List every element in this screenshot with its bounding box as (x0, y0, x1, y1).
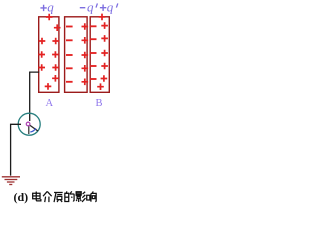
label B (96, 98, 103, 109)
plate A positive charges (38, 14, 60, 90)
caption character zhi (54, 192, 63, 202)
svg-text:q: q (107, 0, 114, 14)
caption (d) (14, 190, 29, 204)
svg-text:B: B (96, 98, 103, 109)
electroscope lower rod (28, 126, 30, 134)
ground (2, 177, 20, 185)
svg-text:q: q (47, 0, 54, 14)
plate B outline (90, 17, 109, 93)
pivot (26, 122, 30, 126)
dielectric slab outline (65, 17, 88, 93)
deflection arc (30, 128, 36, 132)
electroscope needle (30, 125, 38, 131)
plate B charges (90, 14, 108, 90)
caption character dian (33, 192, 41, 201)
svg-text:q: q (87, 0, 94, 14)
caption character xiang (87, 191, 96, 201)
plate A outline (39, 17, 59, 93)
caption character ying (76, 192, 86, 202)
wire from electroscope to ground (11, 124, 21, 175)
label +q (40, 0, 54, 14)
wire from plate A to electroscope (30, 72, 40, 121)
caption character jie (43, 191, 52, 202)
svg-text:(d): (d) (14, 190, 29, 204)
electroscope body (18, 113, 40, 135)
svg-text:A: A (46, 98, 54, 109)
caption character de (65, 191, 74, 201)
label A (46, 98, 54, 109)
label -q' (80, 0, 98, 14)
dielectric induced charges (66, 23, 88, 85)
label +q' (100, 0, 118, 14)
